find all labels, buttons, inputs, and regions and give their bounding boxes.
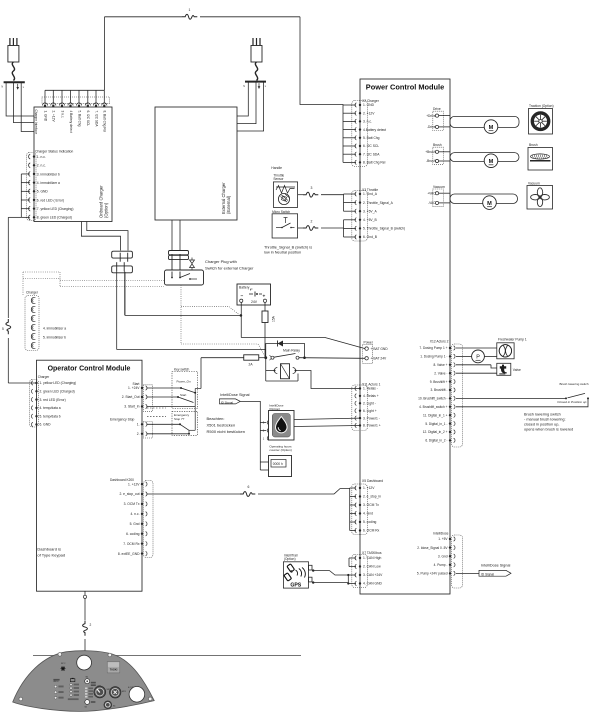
svg-text:1: 1 <box>189 8 191 12</box>
svg-text:2. e_stop_in: 2. e_stop_in <box>363 495 381 499</box>
svg-text:Beachten:: Beachten: <box>207 416 225 421</box>
svg-text:2. +12V: 2. +12V <box>363 111 375 115</box>
svg-text:1. GND: 1. GND <box>43 111 47 122</box>
svg-text:3. CAN +24V: 3. CAN +24V <box>363 573 383 577</box>
svg-text:24V: 24V <box>251 300 258 304</box>
svg-text:5. GND: 5. GND <box>37 190 49 194</box>
svg-text:1. Dosing Pump 1 -: 1. Dosing Pump 1 - <box>420 355 447 359</box>
svg-text:4. immobilizer a: 4. immobilizer a <box>43 326 66 330</box>
svg-text:10. Brushlift_switch -: 10. Brushlift_switch - <box>418 397 447 401</box>
svg-text:3. OCM Tx: 3. OCM Tx <box>124 502 140 506</box>
svg-text:S2: S2 <box>85 707 87 709</box>
svg-text:3. red LED (Error): 3. red LED (Error) <box>40 398 66 402</box>
svg-text:12. Digital_in_2 +: 12. Digital_in_2 + <box>423 430 448 434</box>
svg-text:6. I2C SCL: 6. I2C SCL <box>363 144 379 148</box>
svg-text:M: M <box>487 201 492 207</box>
svg-text:1. Relais -: 1. Relais - <box>363 387 378 391</box>
svg-text:3. immobilizer b: 3. immobilizer b <box>37 172 60 176</box>
svg-text:6. Gnd_B: 6. Gnd_B <box>363 235 378 239</box>
svg-text:-VAC: -VAC <box>428 201 436 205</box>
svg-text:IntelliDose Signal: IntelliDose Signal <box>481 564 510 568</box>
svg-text:2: 2 <box>90 623 92 627</box>
svg-text:X12 Actors 2: X12 Actors 2 <box>430 340 449 344</box>
svg-text:4. +5V_B: 4. +5V_B <box>363 218 377 222</box>
svg-text:M: M <box>489 125 494 131</box>
svg-text:Stop 7?: Stop 7? <box>174 417 185 421</box>
svg-text:3 n.c.: 3 n.c. <box>60 111 64 119</box>
svg-text:4. n.c.: 4. n.c. <box>131 512 140 516</box>
svg-text:2. Valve -: 2. Valve - <box>434 371 447 375</box>
svg-text:Vacuum: Vacuum <box>433 185 445 189</box>
svg-text:5. Gnd: 5. Gnd <box>130 522 140 526</box>
svg-text:8. Power1 +: 8. Power1 + <box>363 424 381 428</box>
svg-text:Sensor: Sensor <box>273 177 284 181</box>
svg-text:Dashboard is: Dashboard is <box>37 547 61 552</box>
svg-text:closed in position up,: closed in position up, <box>524 423 559 427</box>
svg-text:Closed in Position up: Closed in Position up <box>557 400 586 404</box>
svg-text:11. Digital_in_1 +: 11. Digital_in_1 + <box>423 413 448 417</box>
svg-text:1. +12V: 1. +12V <box>363 486 375 490</box>
svg-text:ID Signal: ID Signal <box>221 400 234 404</box>
svg-text:2. +12V: 2. +12V <box>52 111 56 123</box>
svg-text:N: N <box>1 86 3 89</box>
svg-text:N: N <box>243 85 245 88</box>
svg-text:+VAC: +VAC <box>427 191 436 195</box>
svg-text:Charger: Charger <box>26 291 39 295</box>
svg-text:6. I2C SCL: 6. I2C SCL <box>86 111 90 127</box>
svg-text:-Brush: -Brush <box>426 159 436 163</box>
svg-text:5. Batt Chg: 5. Batt Chg <box>363 136 380 140</box>
svg-text:3: 3 <box>311 186 313 190</box>
svg-text:Switch for external Charger: Switch for external Charger <box>205 266 254 271</box>
svg-text:+Drive: +Drive <box>426 114 436 118</box>
svg-text:−: − <box>241 295 244 300</box>
svg-text:3. Power1 -: 3. Power1 - <box>363 416 380 420</box>
svg-text:2. Light -: 2. Light - <box>363 402 376 406</box>
svg-text:Handle: Handle <box>271 166 282 170</box>
svg-text:1. GND: 1. GND <box>363 103 375 107</box>
svg-text:Freshwater Pump 1: Freshwater Pump 1 <box>498 338 527 342</box>
svg-text:6. coding: 6. coding <box>126 532 140 536</box>
svg-text:8. extEE_GND: 8. extEE_GND <box>118 552 140 556</box>
svg-text:6. Light +: 6. Light + <box>363 409 377 413</box>
svg-text:P: P <box>476 355 480 361</box>
svg-text:Key switch: Key switch <box>174 367 189 371</box>
svg-text:4. temp/data a: 4. temp/data a <box>40 406 61 410</box>
svg-text:of Type Keypad: of Type Keypad <box>37 553 65 558</box>
svg-text:2. Start_Out: 2. Start_Out <box>122 395 140 399</box>
svg-text:Throttle_Signal_B (switch) is: Throttle_Signal_B (switch) is <box>264 245 312 249</box>
svg-text:1. Gnd_A: 1. Gnd_A <box>363 192 378 196</box>
svg-text:Charger Interface: Charger Interface <box>34 110 38 135</box>
svg-text:low in Neutral position: low in Neutral position <box>264 251 301 255</box>
svg-text:-Drive: -Drive <box>427 125 436 129</box>
svg-text:4. Relais +: 4. Relais + <box>363 394 379 398</box>
svg-text:5: 5 <box>2 327 4 331</box>
svg-text:2.: 2. <box>137 432 140 436</box>
svg-text:- manual brush lowering:: - manual brush lowering: <box>524 418 566 422</box>
svg-text:X501 bestücken: X501 bestücken <box>207 423 236 428</box>
svg-text:Traction (Option): Traction (Option) <box>529 104 554 108</box>
svg-text:Main Relay: Main Relay <box>283 349 300 353</box>
svg-text:+Brush: +Brush <box>425 150 435 154</box>
svg-text:3. Brushlift -: 3. Brushlift - <box>430 388 447 392</box>
svg-text:Charger: Charger <box>38 375 50 379</box>
svg-text:8. Batt Chg Rel: 8. Batt Chg Rel <box>103 111 107 133</box>
svg-text:7. OCM Rx: 7. OCM Rx <box>123 542 140 546</box>
svg-text:(External): (External) <box>226 195 231 214</box>
svg-text:ID Signal: ID Signal <box>481 572 494 576</box>
svg-text:4. immobilizer a: 4. immobilizer a <box>37 181 60 185</box>
svg-text:3. Start_In: 3. Start_In <box>124 405 139 409</box>
svg-text:1. n.c.: 1. n.c. <box>37 155 46 159</box>
svg-text:opens when brush is lowered: opens when brush is lowered <box>524 428 573 432</box>
svg-text:6. Digital_in_2 -: 6. Digital_in_2 - <box>425 439 447 443</box>
svg-text:4. Pump -: 4. Pump - <box>434 563 448 567</box>
svg-text:IntelliDose: IntelliDose <box>433 532 449 536</box>
svg-text:S6: S6 <box>86 677 88 679</box>
svg-text:8. Batt Chg Rel: 8. Batt Chg Rel <box>363 161 386 165</box>
svg-text:1. CAN High: 1. CAN High <box>363 556 381 560</box>
svg-text:8. green LED (Charged): 8. green LED (Charged) <box>37 216 72 220</box>
svg-text:6: 6 <box>248 485 250 489</box>
svg-text:IntelliDose Signal: IntelliDose Signal <box>220 393 249 397</box>
svg-text:2: 2 <box>311 220 313 224</box>
svg-text:7. I2C SDA: 7. I2C SDA <box>363 152 380 156</box>
svg-text:Emergency Stop: Emergency Stop <box>110 418 135 422</box>
svg-text:GPS: GPS <box>290 583 301 589</box>
svg-text:7. Dosing Pump 1 +: 7. Dosing Pump 1 + <box>419 346 447 350</box>
svg-text:5. Batt Chg: 5. Batt Chg <box>77 111 81 127</box>
svg-text:9. Brushlift +: 9. Brushlift + <box>430 380 448 384</box>
svg-text:2. CAN Low: 2. CAN Low <box>363 565 381 569</box>
svg-text:1. +12V: 1. +12V <box>128 482 140 486</box>
svg-text:M: M <box>489 159 494 165</box>
svg-text:Vacuum: Vacuum <box>528 182 540 186</box>
svg-text:Brush: Brush <box>529 143 538 147</box>
svg-text:+: + <box>263 295 266 300</box>
svg-text:JFK 4: JFK 4 <box>53 681 59 683</box>
svg-text:4. CAN GND: 4. CAN GND <box>363 582 382 586</box>
svg-text:15A: 15A <box>272 315 276 322</box>
svg-text:2. green LED (Charged): 2. green LED (Charged) <box>40 390 75 394</box>
svg-text:4 Battery detect: 4 Battery detect <box>69 111 73 133</box>
svg-text:Micro Switch: Micro Switch <box>272 210 290 214</box>
svg-text:2. e_stop_out: 2. e_stop_out <box>120 492 140 496</box>
svg-text:5. Digital_in_1 -: 5. Digital_in_1 - <box>425 422 447 426</box>
svg-text:5. immobilizer b: 5. immobilizer b <box>43 335 66 339</box>
svg-text:5. Pump +24V pulsed: 5. Pump +24V pulsed <box>417 572 448 576</box>
svg-text:Valve: Valve <box>513 368 521 372</box>
svg-text:6. GND: 6. GND <box>40 423 52 427</box>
svg-text:1. +24V: 1. +24V <box>128 386 140 390</box>
svg-text:Charger Plug with: Charger Plug with <box>205 259 237 264</box>
svg-text:Brush lowering switch: Brush lowering switch <box>560 382 589 386</box>
svg-text:8. Valve +: 8. Valve + <box>433 363 447 367</box>
svg-text:2. Idose_Signal 0..5V: 2. Idose_Signal 0..5V <box>417 546 448 550</box>
svg-text:Power_On: Power_On <box>177 379 192 383</box>
svg-text:5. coding: 5. coding <box>363 520 377 524</box>
svg-text:0000 h: 0000 h <box>273 462 283 466</box>
svg-text:(Option): (Option) <box>104 202 109 218</box>
svg-text:+ BAT GND: + BAT GND <box>371 347 389 351</box>
svg-text:Brush: Brush <box>433 143 442 147</box>
svg-text:6. red LED ( Error): 6. red LED ( Error) <box>37 198 64 202</box>
svg-text:X5 Dashboard: X5 Dashboard <box>362 479 383 483</box>
svg-text:Battery: Battery <box>239 286 250 290</box>
svg-text:7. yellow LED (Charging): 7. yellow LED (Charging) <box>37 207 74 211</box>
svg-text:Brush lowering switch: Brush lowering switch <box>524 413 561 417</box>
svg-text:3. OCM Tx: 3. OCM Tx <box>363 503 379 507</box>
svg-text:5. Throttle_Signal_B (switch): 5. Throttle_Signal_B (switch) <box>363 227 405 231</box>
svg-text:3. +5V_A: 3. +5V_A <box>363 209 377 213</box>
svg-text:Operator Control Module: Operator Control Module <box>48 366 131 373</box>
svg-text:4. Brushlift_switch +: 4. Brushlift_switch + <box>419 405 448 409</box>
svg-text:Power Control Module: Power Control Module <box>366 83 444 92</box>
svg-text:1. yellow LED (Charging): 1. yellow LED (Charging) <box>40 381 77 385</box>
svg-text:1.: 1. <box>137 423 140 427</box>
svg-text:counter (Option): counter (Option) <box>269 448 291 452</box>
svg-text:1. +5V: 1. +5V <box>438 537 448 541</box>
svg-text:6. OCM Rx: 6. OCM Rx <box>363 529 380 533</box>
svg-text:5. temp/data b: 5. temp/data b <box>40 414 61 418</box>
svg-text:Drive: Drive <box>433 107 441 111</box>
svg-text:Charger Status Indication: Charger Status Indication <box>35 150 73 154</box>
svg-text:R500 nicht bestücken: R500 nicht bestücken <box>207 429 245 434</box>
svg-text:4.Battery detect: 4.Battery detect <box>363 128 386 132</box>
svg-text:2. n.c.: 2. n.c. <box>37 164 46 168</box>
svg-text:(Option): (Option) <box>284 557 296 561</box>
svg-text:3. Gnd: 3. Gnd <box>438 554 448 558</box>
svg-text:+ BAT 24V: + BAT 24V <box>371 357 388 361</box>
svg-text:4. Gnd: 4. Gnd <box>363 512 373 516</box>
svg-text:TASKI: TASKI <box>110 668 118 672</box>
svg-text:Start: Start <box>180 393 187 397</box>
svg-text:7. I2C SDA: 7. I2C SDA <box>94 111 98 128</box>
